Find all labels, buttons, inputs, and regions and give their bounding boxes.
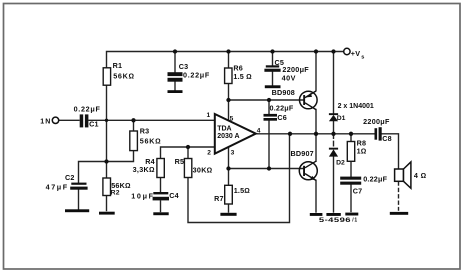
junction node top rail / BD908 emitter xyxy=(314,49,318,53)
junction node top rail / C3 xyxy=(173,49,177,53)
svg-text:C8: C8 xyxy=(382,134,392,143)
svg-text:R1: R1 xyxy=(113,61,123,70)
terminal +Vs xyxy=(344,48,350,54)
svg-text:C2: C2 xyxy=(65,173,75,182)
svg-text:R3: R3 xyxy=(140,126,150,135)
wire pin5 node to BD908 base xyxy=(229,99,304,101)
svg-text:R5: R5 xyxy=(175,157,185,166)
svg-text:D1: D1 xyxy=(337,115,346,122)
wire BD908 emitter to +Vs rail xyxy=(315,52,317,91)
wire R7 bottom to ground xyxy=(228,204,230,212)
svg-text:1N: 1N xyxy=(40,118,51,125)
junction node output / diode branch xyxy=(331,132,335,136)
wire bias node horizontal C2 to R3 xyxy=(79,151,134,183)
ground speaker xyxy=(390,212,408,215)
svg-text:C6: C6 xyxy=(277,113,287,122)
junction node pin2 / R5 xyxy=(186,145,190,149)
resistor R3 xyxy=(130,131,138,151)
resistor R2 xyxy=(103,178,111,196)
junction node top rail / C5 xyxy=(270,49,274,53)
junction node top rail / D1 branch xyxy=(331,49,335,53)
wire pin3 node to BD907 base xyxy=(229,168,304,170)
junction node output / feedback xyxy=(288,132,292,136)
capacitor C2 plates (electrolytic) xyxy=(71,183,86,185)
svg-text:+V: +V xyxy=(351,49,360,58)
junction node output / R8 xyxy=(349,132,353,136)
capacitor C4 plates (electrolytic) xyxy=(153,192,168,194)
wire feedback bottom rail xyxy=(188,134,290,223)
capacitor C6 plates xyxy=(264,114,278,117)
wire C5 top stub xyxy=(272,52,274,66)
capacitor C8 plates (electrolytic, series) xyxy=(375,128,378,140)
wire C2 bottom to ground xyxy=(78,190,80,210)
svg-text:40V: 40V xyxy=(282,74,296,83)
svg-text:4 Ω: 4 Ω xyxy=(414,171,427,180)
capacitor C5 plates (electrolytic) xyxy=(266,65,279,67)
svg-text:2200μF: 2200μF xyxy=(363,117,390,126)
wire op-amp pin 5 xyxy=(228,100,230,121)
wire R1 bottom through input line to bias node xyxy=(106,85,108,161)
junction node pin5 / R6 xyxy=(226,98,230,102)
speaker LS 4 ohm xyxy=(395,162,411,188)
wire +Vs rail to D1 cathode xyxy=(333,52,335,115)
capacitor C3 plates xyxy=(168,72,183,76)
ground D2 xyxy=(326,213,340,216)
svg-text:10μF: 10μF xyxy=(131,192,155,201)
wire input line xyxy=(59,119,79,121)
wire C3 bottom to ground xyxy=(174,82,176,91)
wire op-amp pin 3 xyxy=(228,147,230,169)
capacitor C1 plates xyxy=(80,114,84,127)
svg-text:BD907: BD907 xyxy=(291,149,314,158)
junction node top rail / R6 xyxy=(226,49,230,53)
svg-text:3: 3 xyxy=(231,150,235,157)
svg-text:5-4596: 5-4596 xyxy=(319,216,351,223)
junction node pin5 wire / C6 xyxy=(267,98,271,102)
junction node input line / R1 R2 xyxy=(105,119,108,122)
wire R2 bottom to ground xyxy=(106,196,108,211)
svg-text:1: 1 xyxy=(207,112,211,119)
wire C4 to ground xyxy=(160,201,162,212)
svg-text:1.5 Ω: 1.5 Ω xyxy=(233,72,252,81)
wire D1 anode to output xyxy=(333,121,335,134)
capacitor C7 plates xyxy=(340,177,361,180)
wire input line C1 to op-amp pin 1 xyxy=(89,119,215,121)
ground C2 xyxy=(65,209,89,212)
wire op-amp pin 2 line xyxy=(161,147,215,159)
wire output to D2 cathode (dashed) xyxy=(333,134,335,149)
wire R6 top stub xyxy=(228,52,230,69)
wire R8 top stub xyxy=(350,134,352,142)
svg-text:s: s xyxy=(361,54,365,60)
diode D1 xyxy=(329,113,338,115)
svg-text:0.22μF: 0.22μF xyxy=(363,174,387,183)
junction node pin3 / R7 xyxy=(226,166,230,170)
resistor R7 xyxy=(225,185,233,204)
wire top supply rail xyxy=(107,52,344,68)
input terminal 1N xyxy=(52,117,58,123)
svg-text:/1: /1 xyxy=(352,218,358,224)
ground C5 xyxy=(265,85,281,88)
transistor Q2 BD907 xyxy=(299,161,317,180)
svg-text:1.5Ω: 1.5Ω xyxy=(234,186,250,195)
svg-text:2030 A: 2030 A xyxy=(217,133,239,140)
junction node bias / R2 xyxy=(104,159,108,163)
op-amp U1 TDA2030A xyxy=(215,114,256,154)
svg-text:2 x 1N4001: 2 x 1N4001 xyxy=(338,103,374,110)
diode D2 xyxy=(329,148,338,150)
svg-text:56KΩ: 56KΩ xyxy=(140,137,162,146)
svg-text:30KΩ: 30KΩ xyxy=(193,166,213,175)
svg-text:0.22μF: 0.22μF xyxy=(74,105,101,114)
junction node input line / R3 xyxy=(131,118,135,122)
wire C8 to speaker xyxy=(382,134,399,169)
svg-text:1Ω: 1Ω xyxy=(357,147,367,156)
svg-text:C7: C7 xyxy=(353,186,363,195)
svg-text:C4: C4 xyxy=(169,191,179,200)
ground C7 xyxy=(345,213,358,216)
svg-text:2200μF: 2200μF xyxy=(282,65,309,74)
ground R7 xyxy=(220,213,236,216)
svg-text:TDA: TDA xyxy=(217,125,231,132)
wire R6 bottom to pin5 node xyxy=(228,84,230,101)
wire C6 bottom to pin3 node xyxy=(268,120,270,168)
svg-text:4: 4 xyxy=(257,128,261,135)
resistor R6 xyxy=(225,68,232,84)
svg-text:0.22μF: 0.22μF xyxy=(270,104,294,113)
svg-text:D2: D2 xyxy=(336,159,345,166)
svg-text:BD908: BD908 xyxy=(272,88,295,97)
wire R5 top stub xyxy=(187,147,189,159)
wire C3 top stub xyxy=(174,52,176,73)
svg-text:C1: C1 xyxy=(89,120,99,129)
wire C7 to ground xyxy=(350,185,352,212)
ground BD907 emitter xyxy=(310,213,323,216)
wire D2 anode to ground xyxy=(333,157,335,213)
wire BD907 emitter to ground xyxy=(315,180,317,212)
transistor Q1 BD908 xyxy=(300,91,318,110)
junction node pin3 wire / C6 xyxy=(267,166,271,170)
resistor R4 xyxy=(157,159,164,178)
resistor R8 xyxy=(347,142,354,162)
ground C4 xyxy=(153,212,168,215)
svg-text:2: 2 xyxy=(207,150,211,157)
wire C5 bottom to ground xyxy=(272,72,274,86)
wire R8 to C7 xyxy=(350,161,352,176)
wire C6 top stub xyxy=(268,100,270,114)
svg-text:5: 5 xyxy=(230,115,234,122)
svg-text:3,3KΩ: 3,3KΩ xyxy=(133,165,155,174)
junction node output / BD908 BD907 collectors xyxy=(314,132,318,136)
wire R2 top stub xyxy=(106,162,108,179)
ground R2 xyxy=(99,212,115,215)
resistor R5 xyxy=(184,159,191,178)
svg-text:R2: R2 xyxy=(111,190,120,197)
wire R4 to C4 xyxy=(160,178,162,193)
ground C3 xyxy=(168,90,183,93)
wire speaker to ground (dashed) xyxy=(398,182,400,210)
resistor R1 xyxy=(103,68,110,85)
wire BD908 collector to output xyxy=(315,110,317,134)
wire op-amp output pin 4 xyxy=(256,133,375,135)
svg-text:0.22μF: 0.22μF xyxy=(183,71,210,80)
wire R7 top stub xyxy=(228,169,230,186)
svg-text:R7: R7 xyxy=(214,194,224,203)
wire BD907 collector to output xyxy=(315,134,317,162)
wire R3 top stub xyxy=(133,120,135,131)
svg-text:56KΩ: 56KΩ xyxy=(113,72,135,81)
svg-text:47μF: 47μF xyxy=(46,182,69,191)
